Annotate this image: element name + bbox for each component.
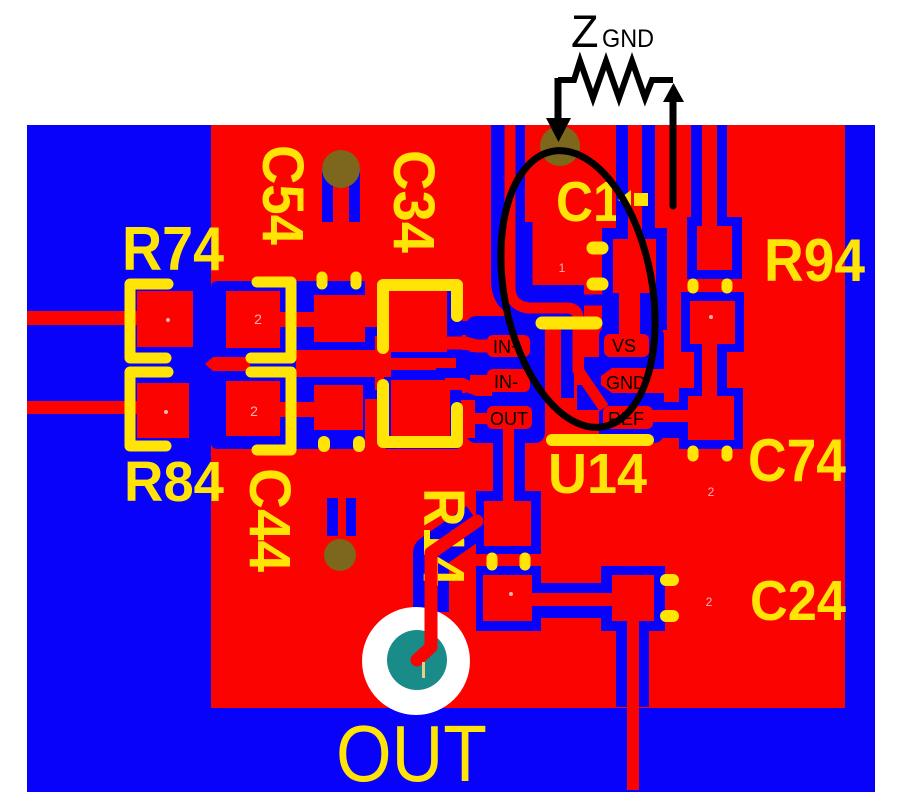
silk tick R14 a [487,558,498,565]
svg-text:R84: R84 [124,450,224,514]
capacitor C34 pad 2 [391,380,450,438]
pin dot R74 [166,318,170,322]
silk bracket R74 right [251,282,291,358]
annotation arrowhead up [663,83,684,102]
svg-text:C44: C44 [237,468,302,572]
op-amp U1 pin VS [604,334,649,357]
pour column N1-O1 [365,281,386,327]
svg-text:U14: U14 [548,442,647,506]
op-amp U1 pin REF [603,406,653,429]
top copper pour GND [211,125,845,708]
svg-text:C34: C34 [381,150,446,253]
wire C14 riser over label [628,166,642,243]
svg-text:C24: C24 [750,569,846,633]
clearance OUT stub [493,428,525,503]
wire OUT stub [503,428,514,502]
test point OUT barrel [387,630,447,690]
wire C24 to bottom edge [627,621,639,790]
silk bracket R84 right [251,372,291,450]
resistor R14 pad 2 [483,575,532,621]
wire mid bus [296,350,391,377]
clearance REF stub [649,402,680,438]
pin dot R84 [164,410,168,414]
svg-text:R74: R74 [122,215,224,284]
svg-text:2: 2 [706,595,713,609]
silk tick C54 a [317,277,328,284]
capacitor C34 pad 1 [386,289,447,352]
clearance output diagonal trace [431,521,477,612]
label C14 digit fragment [618,190,631,208]
silk bracket R74 left [130,284,168,358]
resistor R94 pad 1 [697,226,732,270]
wire R94 riser [702,125,717,231]
clearance of input trace bundle [508,125,584,302]
svg-text:VS: VS [612,336,636,356]
annotation resistor Z_GND symbol [558,61,673,98]
silk tick C74 b [722,451,733,456]
annotation ellipse [480,138,677,440]
capacitor C74 pad 1 [688,396,734,440]
silk tick C74 a [688,451,699,456]
plane cutout U14 left pins [466,316,545,443]
wire M1-N1 [280,312,316,327]
silk bracket C34 bottom [383,385,457,442]
wire C14 to VS [619,290,640,338]
silk tick R14 b [520,558,531,565]
silk tick C14 b [593,278,602,291]
pin dot R94 [709,315,713,319]
clearance between IN+ and IN- wires [444,350,468,381]
resistor R74 pad 1 [137,291,193,347]
annotation right lead [670,102,677,206]
wire bus stub lower [375,370,384,390]
wire O2 to IN- [445,384,492,390]
wire O1 to IN+ [444,343,492,346]
clearance C54 pin slots [322,166,333,222]
silk bracket R84 left [130,372,168,446]
wire R94 to C74 [702,344,717,397]
pour stub node [205,357,250,371]
silk tick R94 a [688,284,699,288]
clearance ring R14 pad 1 [476,491,541,554]
silk tick R94 b [722,284,733,288]
clearance C24 bottom trace [616,621,649,707]
silk bar U14 bottom [552,434,648,446]
pour finger right of C34 bracket [461,400,475,438]
resistor R94 pad 2 [690,301,735,344]
svg-text:2: 2 [250,403,258,419]
wire clearance over label C14 [616,166,628,232]
via C44 [324,539,356,571]
capacitor C44 pad [314,385,363,430]
silk bracket C34 top [383,285,457,348]
svg-text:C54: C54 [250,145,315,245]
resistor R84 pad 2 [226,381,280,436]
svg-text:OUT: OUT [490,409,528,429]
clearance ring C24 pad 1 [601,566,665,631]
pin dot R14 [509,592,513,596]
test point OUT ring [362,607,470,715]
resistor R14 pad 1 [484,501,531,546]
svg-text:2: 2 [708,485,715,499]
svg-text:GND: GND [602,25,654,53]
silk tick C24 a [666,574,673,586]
annotation arrowhead down [546,118,571,142]
bus stub tip [436,358,456,368]
clearance R94-C74 stem [694,344,727,396]
svg-text:R94: R94 [764,227,866,294]
op-amp U1 pin IN+ [470,340,490,352]
wire output to test point [417,521,477,660]
via C54 [322,150,360,188]
resistor R84 pad 1 [137,383,189,438]
ground plane (bottom copper) [27,125,875,792]
clearance ring C14 pad 2 [602,228,667,304]
silk tick C14 a [593,242,602,255]
clearance channel left of REF trace [561,319,574,398]
clearance C44 pin slots [327,498,338,536]
clearance wedge above REF pad [577,385,599,410]
wire bus stub upper [375,336,384,360]
wire REF to C74 [651,410,692,422]
clearance R14-C24 trace [541,583,601,618]
clearance above IN+ wire [446,321,468,335]
clearance R94 riser [691,125,727,225]
wire to R74 pad 1 [27,311,140,325]
svg-text:1: 1 [559,261,566,275]
wire input bundle to REF [510,125,604,408]
pour column N2-O2 [365,399,386,449]
svg-text:C74: C74 [748,427,847,494]
op-amp U1 pin GND [601,368,656,393]
silk bar U14 top [542,317,596,330]
capacitor C14 pad 2 [613,239,656,293]
clearance left of GND pad [584,357,599,395]
svg-text:Z: Z [571,6,599,57]
wire R14 to C24 [530,593,614,606]
wire to R84 pad 1 [27,401,140,414]
clearance VS stub [602,296,667,330]
svg-text:2: 2 [254,311,262,327]
clearance below IN- wire [444,393,468,404]
wire M2-N2 [280,402,316,417]
svg-text:GND: GND [606,373,646,393]
clearance ring C74 pad 1 [679,388,743,449]
clearance C14 pad 1 [527,222,602,300]
plane cutout U14 right pins [599,326,664,443]
silk tick C44 a [318,442,330,446]
svg-text:OUT: OUT [336,709,487,798]
svg-text:IN-: IN- [494,372,518,392]
silk tick C44 b [353,442,365,446]
clearance ring R94 pad 1 [687,217,742,279]
silk tick C54 b [351,277,362,284]
clearance ring R14 pad 2 [476,566,541,631]
annotation left lead [555,78,562,118]
wire C14 riser [628,125,642,247]
plane cutout component area R74 R84 C54 C44 C34 [211,281,462,449]
capacitor C54 pad [314,295,365,342]
svg-text:IN+: IN+ [493,337,522,357]
clearance VS riser [616,125,655,237]
resistor R74 pad 2 [226,291,280,348]
op-amp U1 pin IN- [470,375,490,387]
svg-text:REF: REF [608,409,644,429]
via GND sense [540,126,580,166]
test point pin mark [422,662,425,678]
op-amp U1 pin OUT [470,413,490,424]
clearance ring R94 pad 2 [681,292,744,352]
silk tick C24 b [666,610,673,622]
capacitor C24 pad 1 [612,575,654,621]
